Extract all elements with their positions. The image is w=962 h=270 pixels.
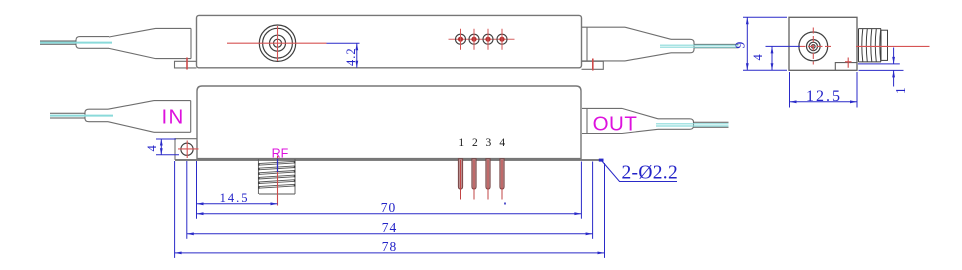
dimension 14.5 — [197, 161, 278, 219]
dimension 4 (end view) — [766, 46, 801, 70]
svg-text:2: 2 — [472, 137, 478, 149]
pin hole circles 1-4 (top view) — [449, 29, 515, 50]
dimension 70 — [197, 162, 582, 219]
top view right boot taper — [625, 27, 671, 61]
svg-text:14.5: 14.5 — [220, 191, 250, 205]
svg-text:74: 74 — [382, 220, 398, 235]
front view right fiber — [694, 122, 729, 127]
front view left connector block — [154, 101, 191, 133]
svg-text:1: 1 — [893, 87, 908, 94]
svg-text:9: 9 — [733, 42, 748, 49]
front view body — [197, 86, 581, 159]
dimension 74 — [187, 161, 593, 239]
top view left hole centerline tick — [186, 58, 188, 70]
end view body — [789, 17, 857, 70]
RF connector circle U1 — [259, 25, 295, 61]
dimension 9 — [743, 17, 787, 70]
svg-text:4: 4 — [145, 145, 159, 152]
top view left boot taper — [109, 28, 156, 58]
svg-text:4: 4 — [499, 137, 505, 149]
end view collimator circles — [799, 32, 828, 61]
front view left ferrule — [85, 109, 108, 122]
top view right ferrule — [671, 39, 694, 53]
dimension 78 — [175, 161, 605, 258]
svg-text:3: 3 — [486, 137, 492, 149]
front view right boot taper — [622, 108, 658, 133]
dimension 1 — [858, 48, 904, 87]
svg-text:70: 70 — [381, 200, 397, 215]
svg-text:2-Ø2.2: 2-Ø2.2 — [622, 163, 679, 184]
top view right hole centerline tick — [592, 59, 594, 71]
svg-text:1: 1 — [458, 137, 464, 149]
front view left fiber — [50, 113, 85, 118]
dimension 4 (front left) — [156, 139, 179, 155]
front view right ferrule — [658, 119, 694, 130]
coil thread end blobs — [259, 161, 295, 188]
front view left flange square — [175, 139, 197, 160]
notch crosshair — [845, 58, 852, 68]
dimension 4.2 — [355, 43, 358, 68]
top view left fiber — [40, 41, 76, 44]
top view right connector block — [582, 27, 625, 61]
top view right mounting tab — [582, 61, 604, 69]
flange bottom line — [175, 159, 602, 161]
front view left boot taper — [108, 101, 154, 133]
front view right connector block — [582, 108, 622, 133]
svg-text:RF: RF — [272, 147, 289, 161]
RF connector crosshair — [227, 26, 327, 61]
extension line (RF center, blue) — [277, 159, 279, 173]
end view centerline (red) — [856, 45, 930, 47]
svg-text:78: 78 — [382, 239, 398, 254]
pins 1-4 (front view) — [458, 159, 504, 200]
svg-text:4: 4 — [751, 54, 765, 61]
svg-text:12.5: 12.5 — [806, 88, 842, 105]
top view left mounting tab — [175, 61, 197, 68]
svg-text:4.2: 4.2 — [344, 47, 358, 66]
leader 2-Ø2.2 — [599, 159, 678, 184]
mounting hole crosshair — [178, 141, 199, 159]
RF coil (side view thread) — [258, 159, 295, 194]
stray dot — [504, 203, 506, 205]
end view crosshair — [800, 28, 832, 65]
extension line for 4.2 — [327, 42, 360, 44]
top view right fiber — [694, 44, 739, 47]
end view thread (SMA) — [859, 29, 888, 62]
dimension 12.5 — [790, 72, 858, 108]
top view left connector block — [156, 28, 192, 58]
svg-text:IN: IN — [162, 105, 185, 128]
RF centerline (red) — [277, 156, 279, 206]
top view left ferrule — [76, 37, 109, 49]
top view body — [197, 15, 582, 67]
mounting hole (left) — [181, 143, 193, 155]
end view notch — [835, 63, 857, 71]
